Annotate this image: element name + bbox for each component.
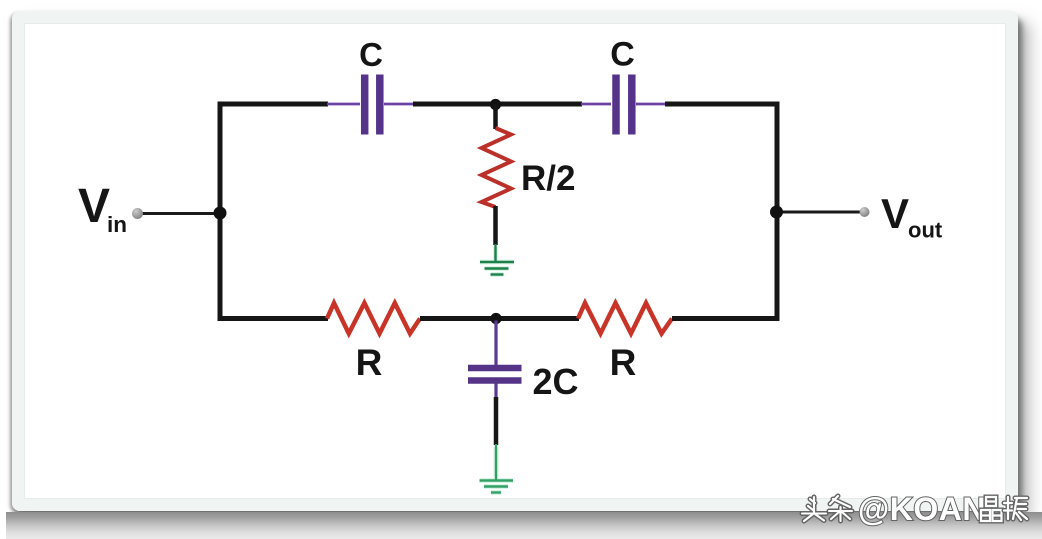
ground GND2 (below 2C): [480, 444, 514, 493]
resistor R1 (bottom-left, value R): [327, 303, 420, 334]
svg-text:V: V: [881, 190, 909, 237]
svg-text:C: C: [359, 36, 383, 73]
svg-text:out: out: [908, 218, 943, 243]
terminal: Vin input terminal: [132, 208, 143, 219]
wire: Vout stub: [777, 211, 860, 214]
label Vin: [78, 180, 127, 237]
wire: bottom rail center-right segment: [496, 316, 579, 321]
wire: stub from R3 to ground: [493, 206, 498, 245]
capacitor C2 (top-right, value C): [581, 75, 666, 135]
glyph 振: [1004, 497, 1027, 520]
svg-text:in: in: [107, 212, 127, 237]
svg-text:R: R: [356, 342, 383, 383]
wire: stub from C3 to ground: [494, 397, 499, 445]
wire: bottom rail left segment: [218, 316, 329, 321]
ground GND1 (below R/2): [480, 244, 514, 275]
capacitor C1 (top-left, value C): [327, 75, 414, 135]
svg-text:R/2: R/2: [521, 159, 575, 198]
svg-text:2C: 2C: [532, 361, 578, 402]
wire: top rail right segment: [665, 102, 780, 107]
node: bottom-center junction: [490, 313, 501, 324]
resistor R2 (bottom-right, value R): [578, 303, 672, 334]
wire: stub from top node to R3: [493, 105, 498, 130]
node: Vin junction on left rail: [214, 207, 227, 220]
label Vout: [881, 190, 943, 243]
node: Vout junction on right rail: [770, 206, 783, 219]
capacitor C3 (vertical, value 2C): [468, 321, 522, 399]
node: top-center junction: [490, 99, 501, 110]
wire: bottom rail center-left segment: [420, 316, 496, 321]
wire: top rail middle segment: [413, 102, 582, 107]
glyph 头: [802, 497, 826, 521]
wire: right vertical rail: [775, 102, 780, 322]
watermark 头条 @KOAN晶振: [802, 491, 1027, 527]
svg-text:V: V: [78, 180, 110, 233]
resistor R3 (vertical, value R/2): [482, 128, 512, 207]
svg-text:C: C: [610, 36, 635, 74]
glyph 晶: [981, 497, 1002, 521]
wire: left vertical rail: [218, 102, 223, 322]
wire: bottom rail right segment: [672, 316, 780, 321]
wire: Vin stub: [142, 212, 221, 215]
svg-text:R: R: [610, 342, 637, 383]
svg-text:@KOAN: @KOAN: [858, 491, 986, 527]
glyph 条: [829, 496, 852, 521]
wire: top rail left segment: [218, 102, 329, 107]
terminal: Vout output terminal: [860, 207, 870, 217]
bottom shadow band: [6, 512, 1042, 539]
